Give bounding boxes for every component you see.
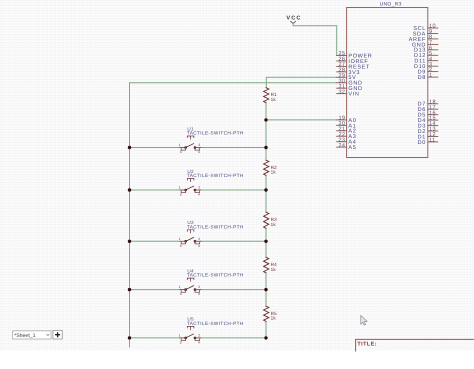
pin 4 D11 (414, 56, 437, 64)
pin 23 A4 (337, 137, 357, 145)
pin 6 D13 (414, 45, 438, 53)
frame title block (partial) (356, 339, 474, 351)
wire VCC to pin 25 POWER (293, 24, 337, 56)
pin 1 D8 (418, 73, 438, 81)
pin 29 5V (337, 73, 357, 81)
svg-text:4: 4 (198, 341, 200, 345)
junction dot ladder rail y=241.3 (264, 240, 267, 243)
pin 15 D4 (418, 116, 438, 124)
svg-text:2: 2 (198, 143, 200, 147)
pin 10 SCL (413, 24, 437, 32)
svg-text:4: 4 (198, 193, 200, 197)
svg-text:4: 4 (198, 292, 200, 296)
wire row U1 left: rail to switch pin 1 (130, 147, 181, 149)
wire right ladder rail (265, 103, 267, 338)
svg-text:4: 4 (198, 150, 200, 154)
wire A0 tap: R1 bottom junction to pin 19 A0 (266, 119, 337, 121)
pin 31 GND (337, 84, 363, 92)
mouse cursor (361, 316, 367, 326)
svg-text:3: 3 (180, 150, 182, 154)
resistor R2 1k (264, 160, 278, 175)
sheet selector combo box (13, 331, 52, 339)
pin 9 SDA (413, 29, 438, 37)
resistor R5 1k (264, 306, 278, 321)
svg-text:TACTILE-SWITCH-PTH: TACTILE-SWITCH-PTH (187, 273, 244, 278)
pin 28 3V3 (337, 67, 361, 75)
resistor R4 1k (264, 257, 278, 273)
power symbol VCC (286, 16, 301, 24)
svg-text:1k: 1k (271, 222, 277, 227)
svg-text:1k: 1k (271, 316, 277, 321)
junction dot ladder rail y=289.6 (264, 288, 267, 291)
svg-text:11: 11 (429, 138, 436, 144)
tactile switch U5 TACTILE-SWITCH-PTH (179, 317, 244, 345)
svg-text:TACTILE-SWITCH-PTH: TACTILE-SWITCH-PTH (187, 321, 244, 326)
pin 11 D0 (418, 138, 438, 146)
wire 5V net: R1 top to pin 29 5V (266, 77, 336, 87)
pin 32 VIN (337, 89, 360, 97)
pin 14 D3 (418, 121, 438, 129)
wire row U5 right: switch pin 2 to ladder rail (201, 337, 266, 339)
svg-text:1k: 1k (271, 170, 277, 175)
svg-text:TACTILE-SWITCH-PTH: TACTILE-SWITCH-PTH (187, 131, 244, 136)
pin 5 D12 (414, 51, 438, 59)
wire row U3 right: switch pin 2 to ladder rail (201, 240, 266, 242)
pin 3 D10 (414, 62, 438, 70)
svg-text:3: 3 (180, 244, 182, 248)
svg-text:4: 4 (198, 244, 200, 248)
svg-text:32: 32 (338, 89, 345, 95)
add sheet button (53, 330, 62, 339)
junction dot ladder rail y=337.9 (264, 336, 267, 339)
svg-text:1: 1 (179, 334, 181, 338)
svg-text:1: 1 (179, 186, 181, 190)
junction dot row U5 on left rail (128, 336, 131, 339)
pin 22 A3 (337, 132, 357, 140)
svg-text:A5: A5 (348, 145, 356, 151)
pin 17 D6 (418, 105, 438, 113)
wire row U5 left: rail to switch pin 1 (130, 337, 181, 339)
svg-text:*Sheet_1: *Sheet_1 (14, 333, 35, 339)
svg-text:1: 1 (179, 143, 181, 147)
tactile switch U4 TACTILE-SWITCH-PTH (179, 268, 244, 296)
junction dot row U3 on left rail (128, 240, 131, 243)
wire row U4 right: switch pin 2 to ladder rail (201, 289, 266, 291)
pin 18 D7 (418, 99, 438, 107)
svg-text:1: 1 (179, 237, 181, 241)
pin 21 A2 (337, 126, 357, 134)
svg-text:TACTILE-SWITCH-PTH: TACTILE-SWITCH-PTH (187, 224, 244, 229)
svg-text:D0: D0 (418, 140, 426, 146)
svg-text:1k: 1k (271, 97, 277, 102)
pin 12 D1 (418, 132, 438, 140)
pin 30 GND (337, 78, 363, 86)
svg-text:2: 2 (198, 285, 200, 289)
pin 20 A1 (337, 121, 357, 129)
wire row U1 right: switch pin 2 to ladder rail (201, 147, 266, 149)
wire row U4 left: rail to switch pin 1 (130, 289, 181, 291)
tactile switch U2 TACTILE-SWITCH-PTH (179, 169, 244, 197)
resistor R3 1k (264, 212, 278, 228)
svg-text:TACTILE-SWITCH-PTH: TACTILE-SWITCH-PTH (187, 173, 244, 178)
svg-text:1k: 1k (271, 267, 277, 272)
pin 16 D5 (418, 110, 438, 118)
junction dot ladder rail y=190.0 (264, 188, 267, 191)
svg-text:3: 3 (180, 292, 182, 296)
wire row U3 left: rail to switch pin 1 (130, 240, 181, 242)
svg-text:VIN: VIN (348, 92, 359, 98)
junction dot row U4 on left rail (128, 288, 131, 291)
svg-text:2: 2 (198, 186, 200, 190)
junction dot ladder rail y=147.5 (264, 146, 267, 149)
pin 7 GND (412, 40, 438, 48)
pin 13 D2 (418, 127, 438, 135)
wire row U2 right: switch pin 2 to ladder rail (201, 189, 266, 191)
svg-text:2: 2 (198, 334, 200, 338)
junction dot ladder rail y=119.9 (264, 118, 267, 121)
pin 8 AREF (409, 35, 438, 43)
svg-text:3: 3 (180, 193, 182, 197)
tactile switch U3 TACTILE-SWITCH-PTH (179, 220, 244, 248)
IC UNO_R3 Arduino Uno module (337, 2, 438, 158)
junction dot row U2 on left rail (128, 188, 131, 191)
tactile switch U1 TACTILE-SWITCH-PTH (179, 126, 244, 154)
wire row U2 left: rail to switch pin 1 (130, 189, 181, 191)
svg-text:1: 1 (179, 285, 181, 289)
pin 26 IOREF (337, 57, 369, 65)
svg-text:3: 3 (180, 341, 182, 345)
resistor R1 1k (264, 88, 278, 103)
pin 27 RESET (337, 62, 370, 70)
svg-text:D8: D8 (418, 75, 426, 81)
svg-text:VCC: VCC (286, 16, 301, 22)
svg-text:1: 1 (429, 73, 432, 79)
pin 24 A5 (337, 143, 357, 151)
pin 19 A0 (337, 116, 357, 124)
UNO_R3 symbol box (347, 8, 428, 158)
wire GND net: left rail to pin 30 GND (130, 83, 337, 347)
pin 25 POWER (337, 51, 373, 59)
svg-text:TITLE:: TITLE: (357, 342, 376, 348)
svg-text:2: 2 (198, 237, 200, 241)
svg-text:24: 24 (338, 143, 345, 149)
junction dot row U1 on left rail (128, 146, 131, 149)
pin 2 D9 (418, 67, 438, 75)
svg-text:UNO_R3: UNO_R3 (380, 2, 402, 8)
